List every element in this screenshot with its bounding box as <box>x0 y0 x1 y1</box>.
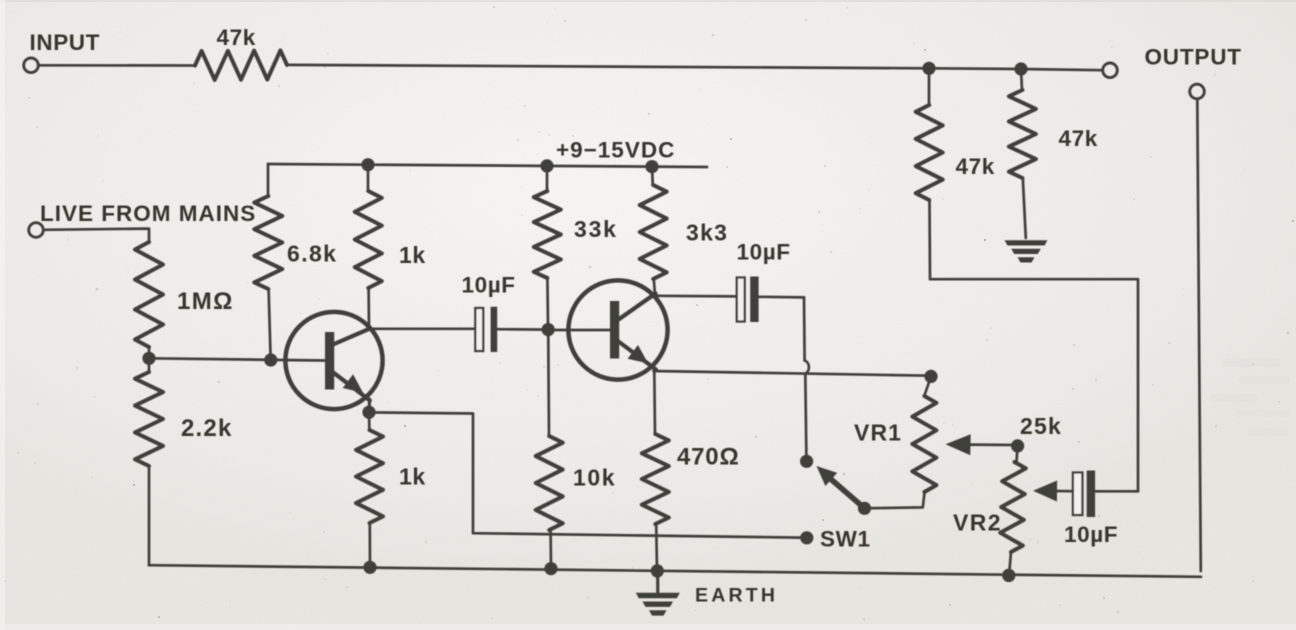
svg-text:EARTH: EARTH <box>695 585 778 607</box>
svg-text:10k: 10k <box>573 465 616 491</box>
svg-text:25k: 25k <box>1020 413 1062 439</box>
svg-text:470Ω: 470Ω <box>677 444 740 471</box>
svg-text:LIVE FROM MAINS: LIVE FROM MAINS <box>40 201 256 226</box>
svg-text:SW1: SW1 <box>820 527 871 552</box>
svg-text:47k: 47k <box>1059 126 1098 151</box>
svg-text:2.2k: 2.2k <box>181 415 233 442</box>
svg-text:47k: 47k <box>217 25 256 50</box>
svg-text:OUTPUT: OUTPUT <box>1145 45 1242 70</box>
svg-text:VR2: VR2 <box>953 510 1002 536</box>
svg-text:6.8k: 6.8k <box>287 241 337 267</box>
svg-text:33k: 33k <box>574 216 618 242</box>
svg-text:1k: 1k <box>399 464 426 490</box>
svg-text:1k: 1k <box>399 242 426 268</box>
svg-text:10µF: 10µF <box>737 240 791 265</box>
svg-text:47k: 47k <box>956 154 995 179</box>
svg-text:+9−15VDC: +9−15VDC <box>556 138 675 163</box>
svg-text:INPUT: INPUT <box>30 30 101 55</box>
svg-text:10µF: 10µF <box>1064 522 1118 547</box>
svg-text:3k3: 3k3 <box>686 220 728 246</box>
svg-text:VR1: VR1 <box>854 420 902 446</box>
svg-text:1MΩ: 1MΩ <box>177 288 234 315</box>
svg-text:10µF: 10µF <box>462 273 516 298</box>
